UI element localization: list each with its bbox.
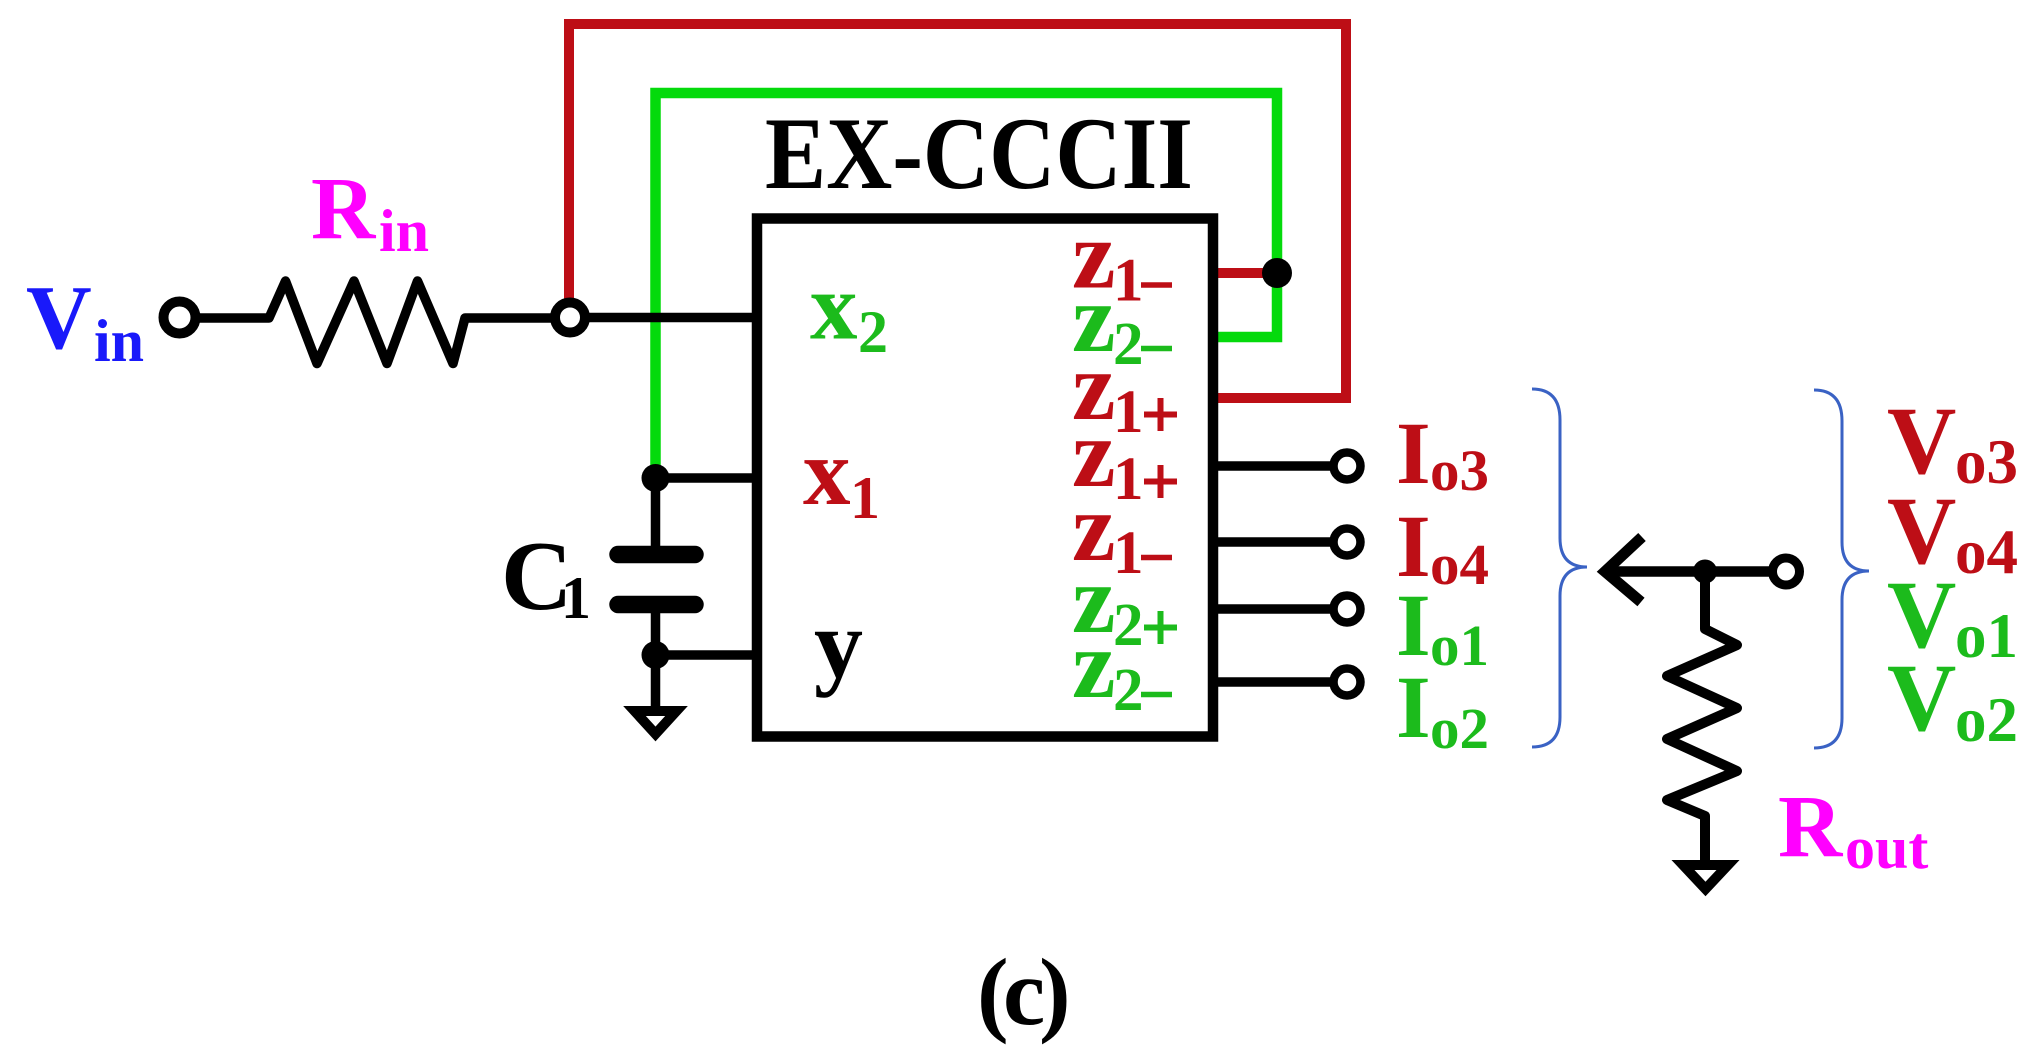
junction dot x1 node <box>642 464 670 492</box>
svg-text:I: I <box>1396 405 1431 503</box>
svg-text:V: V <box>1887 644 1956 751</box>
Vin terminal open circle <box>164 302 196 334</box>
svg-text:z: z <box>1072 611 1116 719</box>
svg-text:): ) <box>1039 939 1071 1045</box>
wire Io4 <box>1211 537 1333 547</box>
svg-text:2: 2 <box>1113 657 1144 724</box>
wire Io3 <box>1211 461 1333 471</box>
svg-text:o2: o2 <box>1430 696 1489 761</box>
brace right (output voltages group) <box>1814 390 1869 748</box>
wire node circle to box x2 port <box>589 313 757 323</box>
resistor Rout zigzag <box>1667 575 1737 861</box>
capacitor C1 top plate <box>618 546 695 564</box>
EX-CCCII block box <box>757 219 1213 737</box>
junction dot z1-/green <box>1262 258 1292 288</box>
svg-text:in: in <box>379 198 429 264</box>
junction dot Rout node <box>1693 560 1717 584</box>
svg-text:2: 2 <box>858 299 888 365</box>
svg-text:EX-CCCII: EX-CCCII <box>765 97 1193 211</box>
capacitor C1 bottom plate <box>618 596 695 614</box>
wire x1 node to capacitor top plate <box>651 478 661 550</box>
svg-text:out: out <box>1845 815 1928 881</box>
svg-text:y: y <box>814 591 863 699</box>
terminal circle Io2 <box>1334 669 1361 696</box>
svg-text:1: 1 <box>850 465 880 531</box>
wire Io1 <box>1211 604 1333 614</box>
terminal circle Vout <box>1773 558 1800 585</box>
svg-text:o4: o4 <box>1955 517 2018 587</box>
wire x1 node to box x1 port <box>656 473 758 483</box>
resistor R_in zigzag <box>199 281 551 364</box>
svg-text:2: 2 <box>1113 311 1144 378</box>
wire Io2 <box>1211 677 1333 687</box>
arrowhead <box>1605 537 1642 602</box>
svg-text:in: in <box>94 308 144 374</box>
svg-text:2: 2 <box>1113 592 1144 659</box>
svg-text:1: 1 <box>1113 520 1144 587</box>
svg-text:R: R <box>1778 778 1844 876</box>
svg-text:o4: o4 <box>1430 532 1489 597</box>
wire red feedback from node to z1+ <box>569 24 1346 398</box>
svg-text:1: 1 <box>1113 446 1144 513</box>
svg-text:o3: o3 <box>1430 438 1489 503</box>
svg-text:o3: o3 <box>1955 427 2018 497</box>
brace left (output currents group) <box>1532 389 1587 747</box>
wire green feedback from x1 node to z2- <box>656 93 1278 474</box>
svg-text:1: 1 <box>1113 248 1144 315</box>
terminal circle Io1 <box>1334 596 1361 623</box>
wire y node to box y port <box>656 650 758 660</box>
wire capacitor bottom plate to y node <box>651 609 661 655</box>
junction dot y node <box>642 641 670 669</box>
svg-text:I: I <box>1396 659 1431 757</box>
wire z1- stub (dark red) <box>1211 268 1277 278</box>
svg-text:o1: o1 <box>1430 613 1489 678</box>
node open circle at resistor/box junction <box>555 303 585 333</box>
wire y node to ground <box>651 655 661 707</box>
svg-text:1: 1 <box>1113 379 1144 446</box>
svg-text:R: R <box>311 160 377 258</box>
terminal circle Io4 <box>1334 529 1361 556</box>
svg-text:o1: o1 <box>1955 601 2018 671</box>
svg-text:x: x <box>803 419 851 525</box>
svg-text:x: x <box>810 254 858 360</box>
svg-text:o2: o2 <box>1955 685 2018 755</box>
ground symbol under Rout <box>1683 865 1728 889</box>
output arrow (current direction) <box>1606 566 1772 577</box>
ground symbol under C1 <box>635 711 677 734</box>
terminal circle Io3 <box>1334 453 1361 480</box>
svg-text:1: 1 <box>561 565 591 631</box>
svg-text:V: V <box>26 267 92 368</box>
